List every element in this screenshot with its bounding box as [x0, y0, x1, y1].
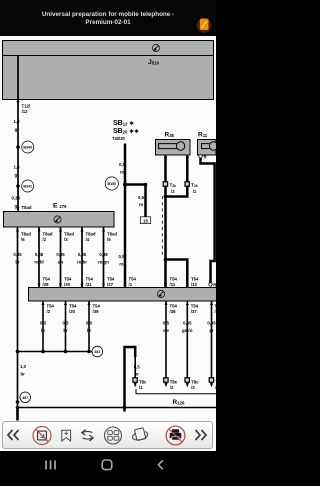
- forward chevrons: [196, 430, 207, 440]
- pin label T12l/12: [22, 104, 31, 114]
- svg-text:ge/ro: ge/ro: [182, 328, 193, 333]
- arrow into E279 pin T8ad/3: [59, 228, 62, 232]
- svg-text:0,5: 0,5: [119, 254, 126, 259]
- arrow into E279 pin T8ad/5: [102, 228, 105, 232]
- svg-text:0,5: 0,5: [119, 162, 126, 167]
- wire E279 T8ad/3 (0,35 sw): [60, 227, 62, 288]
- svg-text:J519: J519: [148, 59, 159, 66]
- value label 1,0 gr: [14, 165, 21, 178]
- earth wire from radio T54/39 (0,5 br): [88, 301, 90, 352]
- bottom earth rail: [18, 407, 217, 409]
- pin T12l/12 arrow: [17, 101, 20, 105]
- svg-text:/37: /37: [191, 309, 198, 314]
- pin label T54/39: [93, 304, 101, 314]
- arrow into telephone unit T8c/2: [165, 383, 168, 387]
- in-line connector T8c/3: [185, 378, 189, 382]
- pin label T54/27: [107, 277, 115, 287]
- wire continuation to connector T8c/1: [134, 356, 136, 382]
- svg-text:T54: T54: [43, 277, 51, 282]
- svg-text:br: br: [41, 328, 46, 333]
- in-line connector T8c/2: [164, 378, 168, 382]
- svg-text:/2: /2: [171, 189, 175, 194]
- svg-text:0,35: 0,35: [207, 321, 216, 326]
- R38 pin dot (left): [164, 156, 167, 159]
- pin label T8ad/3: [64, 232, 74, 242]
- arrow from radio pin T54/40: [210, 301, 213, 305]
- wire T40/30 to radio T54/1 (0,5 ro): [124, 144, 127, 288]
- junction dot on bottom rail: [123, 406, 127, 410]
- svg-text:br: br: [21, 372, 26, 377]
- page curl icon: [132, 428, 147, 441]
- earth stub below rail: [16, 408, 19, 421]
- value label 0,35 sw: [56, 252, 65, 265]
- aerial symbol in R38: [159, 142, 185, 150]
- svg-text:T2k: T2k: [170, 183, 177, 189]
- junction dot at earth point: [16, 400, 20, 404]
- arrow into radio pin T54/11: [164, 284, 167, 288]
- earth point 387: [20, 392, 31, 403]
- in-line connector T8c/7: [209, 378, 213, 382]
- svg-text:/12: /12: [22, 109, 29, 114]
- junction dot on earth rail: [87, 350, 91, 354]
- connector label T2k/1: [191, 183, 198, 195]
- svg-text:T8ad: T8ad: [21, 232, 31, 237]
- svg-text:R: R: [213, 283, 216, 288]
- radio unit R box: [29, 288, 217, 302]
- svg-text:T54: T54: [69, 304, 77, 309]
- svg-text:T54: T54: [170, 304, 178, 309]
- svg-text:0,35: 0,35: [13, 252, 22, 257]
- continuation-arrow symbol in E279: [54, 216, 61, 223]
- earth connection 383: [92, 346, 103, 357]
- value label 1,0 br: [20, 364, 27, 377]
- swap arrows icon: [82, 430, 94, 441]
- pin label T54/28: [43, 277, 51, 287]
- svg-text:SB12 ∗: SB12 ∗: [113, 120, 134, 127]
- svg-text:/7: /7: [215, 385, 216, 390]
- earth wire for telephone unit T8c/1 (0,5 br): [125, 347, 136, 408]
- svg-text:/5: /5: [107, 237, 111, 242]
- svg-text:15: 15: [143, 218, 148, 223]
- positive connection B341: [22, 180, 34, 192]
- value label 0,5 br: [63, 321, 70, 334]
- svg-text:B150: B150: [108, 182, 117, 186]
- android navigation bar: [0, 451, 216, 480]
- value label 0,38 ro/gn: [98, 252, 109, 265]
- in-line connector T2k/2: [163, 182, 167, 186]
- junction dot on earth rail: [41, 350, 45, 354]
- pin label T8ad/5: [107, 232, 117, 242]
- wire E279 T8ad/4 (0,35 ro/br): [81, 227, 83, 288]
- arrow into telephone unit T8c/1: [134, 383, 137, 387]
- svg-text:/12: /12: [191, 282, 198, 287]
- svg-text:/4: /4: [86, 237, 90, 242]
- svg-text:T54: T54: [191, 277, 199, 282]
- svg-text:B341: B341: [23, 185, 32, 189]
- svg-text:sw: sw: [58, 260, 64, 265]
- svg-text:/31: /31: [86, 282, 93, 287]
- arrow into radio pin T54/27: [102, 284, 105, 288]
- svg-text:SB20 ∗∗: SB20 ∗∗: [113, 128, 139, 135]
- svg-text:T8c: T8c: [170, 380, 178, 385]
- svg-text:/6: /6: [21, 237, 25, 242]
- arrow from radio pin T54/37: [186, 301, 189, 305]
- svg-text:T8c: T8c: [139, 380, 147, 385]
- svg-text:/39: /39: [93, 309, 100, 314]
- pin label T8ad/1: [22, 205, 32, 215]
- arrow from radio pin T54/38: [165, 301, 168, 305]
- switch unit E279 box: [4, 212, 115, 228]
- pin label T54/11: [170, 277, 178, 287]
- svg-text:T8ad: T8ad: [64, 232, 74, 237]
- svg-text:T12l: T12l: [22, 104, 31, 109]
- junction dot on earth rail: [64, 350, 68, 354]
- positive connection B340: [22, 141, 34, 153]
- earth wire down (1,0 br): [17, 352, 19, 408]
- svg-text:T54: T54: [129, 277, 137, 282]
- connector label T8c/3: [191, 380, 199, 390]
- svg-text:E 279: E 279: [53, 202, 67, 209]
- arrow from radio pin T54/20: [64, 301, 67, 305]
- svg-text:0,38: 0,38: [35, 252, 44, 257]
- svg-text:/40: /40: [215, 309, 217, 314]
- svg-text:R38: R38: [165, 132, 175, 139]
- svg-text:0,5: 0,5: [40, 321, 47, 326]
- svg-text:gr: gr: [15, 127, 20, 132]
- svg-text:T54: T54: [191, 304, 199, 309]
- svg-text:ro/br: ro/br: [77, 260, 87, 265]
- wire radio T54/38 to telephone unit (0,5 sw): [165, 301, 167, 382]
- aerial coax wire R11 to radio pin R: [201, 158, 215, 283]
- svg-text:0,35: 0,35: [183, 321, 192, 326]
- svg-text:1,0: 1,0: [14, 165, 21, 170]
- bookmark add icon: [62, 430, 71, 441]
- wire E279 T8ad/2 (0,38 ro/bl): [38, 227, 40, 288]
- svg-text:/3: /3: [64, 237, 68, 242]
- svg-text:T40/30: T40/30: [112, 136, 125, 141]
- value label 0,5 br: [86, 321, 93, 334]
- no-image icon: [33, 427, 51, 445]
- telephone interface unit R126 bracket: [136, 389, 216, 394]
- arrow into radio pin T54/12: [186, 284, 189, 288]
- junction dot at B340: [16, 145, 20, 149]
- connector label T8c/7: [215, 380, 223, 390]
- R11 aerial pin R: [199, 155, 202, 158]
- svg-text:T54: T54: [215, 304, 217, 309]
- svg-text:/2: /2: [170, 385, 174, 390]
- svg-text:T8c: T8c: [215, 380, 216, 385]
- junction dot: [164, 195, 168, 199]
- junction dot of screen branch: [164, 258, 168, 262]
- value label 0,5 br: [134, 365, 141, 377]
- arrow into radio pin T54/1: [123, 284, 126, 288]
- pin label T54/38: [170, 304, 178, 314]
- aerial amplifier R38 box: [156, 140, 191, 156]
- svg-text:/1: /1: [139, 385, 143, 390]
- wire branch to terminal 15 (0,5 ro): [125, 185, 146, 217]
- svg-text:/28: /28: [43, 282, 50, 287]
- svg-text:ro: ro: [119, 262, 124, 267]
- pin label T8ad/2: [43, 232, 53, 242]
- svg-text:1,0: 1,0: [14, 119, 21, 124]
- svg-text:T8ad: T8ad: [43, 232, 53, 237]
- svg-text:0,38: 0,38: [99, 252, 108, 257]
- svg-text:br: br: [63, 328, 68, 333]
- arrow into E279 pin T8ad/2: [38, 228, 41, 232]
- pin label T54/12: [191, 277, 199, 287]
- svg-text:0,5: 0,5: [86, 321, 93, 326]
- svg-text:ro/bl: ro/bl: [34, 260, 43, 265]
- arrow into telephone unit T8c/3: [186, 383, 189, 387]
- window grid icon: [105, 427, 122, 444]
- aerial R11 box: [198, 140, 217, 156]
- junction dot: [144, 183, 148, 187]
- svg-text:/30: /30: [64, 282, 71, 287]
- continuation-arrow symbol in radio box: [157, 290, 164, 297]
- in-line connector T2k/1: [185, 182, 189, 186]
- connector label T8c/2: [170, 380, 178, 390]
- positive connection B150: [105, 177, 118, 190]
- svg-text:0,5: 0,5: [63, 321, 70, 326]
- arrow into telephone unit T8c/7: [210, 383, 213, 387]
- stub below rail: [123, 408, 126, 412]
- screened wire R38 to radio T54/11: [164, 157, 167, 288]
- svg-text:0,35: 0,35: [56, 252, 65, 257]
- svg-text:br: br: [135, 372, 140, 377]
- svg-text:T54: T54: [170, 277, 178, 282]
- svg-text:/27: /27: [107, 282, 114, 287]
- R38 pin dot (right): [186, 156, 189, 159]
- svg-text:ro: ro: [139, 202, 144, 207]
- pin label T54/40: [215, 304, 223, 314]
- svg-text:T8ad: T8ad: [22, 205, 32, 210]
- svg-text:T54: T54: [107, 277, 115, 282]
- pin T8ad/1 arrow into E279: [17, 207, 20, 211]
- svg-text:0,5: 0,5: [163, 321, 170, 326]
- svg-text:gr: gr: [209, 328, 214, 333]
- pin label T54/2: [47, 304, 55, 314]
- wire E279 T8ad/6 (0,35 br): [17, 227, 19, 352]
- pin label T54/30: [64, 277, 72, 287]
- svg-text:/38: /38: [170, 309, 177, 314]
- arrow into radio pin T54/30: [59, 284, 62, 288]
- svg-text:/1: /1: [193, 189, 197, 194]
- pin label T8ad/6: [21, 232, 31, 242]
- value label 1,0 gr: [14, 119, 21, 132]
- wire radio T54/37 to telephone unit (0,35 ge/ro): [186, 301, 188, 382]
- toolbar: [2, 421, 213, 449]
- terminal 15 designation box: [140, 217, 150, 224]
- earth wire from radio T54/2 (0,5 br): [42, 301, 44, 352]
- svg-text:sw: sw: [163, 328, 169, 333]
- svg-text:br: br: [15, 260, 20, 265]
- junction dot at B150: [123, 183, 127, 187]
- arrow into E279 pin T8ad/6: [16, 228, 19, 232]
- back chevrons: [8, 430, 19, 440]
- screen branch wire to radio T54/12: [166, 260, 188, 288]
- pin label T54/1: [129, 277, 137, 287]
- wire J519 to E279 (1,0 gr): [17, 56, 19, 212]
- arrow into radio pin T54/28: [38, 284, 41, 288]
- svg-text:T2k: T2k: [191, 183, 198, 189]
- screening dashed line: [161, 196, 163, 258]
- svg-text:1,0: 1,0: [20, 364, 27, 369]
- no-print icon: [166, 426, 185, 445]
- value label 0,5 br: [40, 321, 47, 334]
- pin label T8ad/4: [86, 232, 96, 242]
- arrow into E279 pin T8ad/4: [81, 228, 84, 232]
- svg-text:gr: gr: [15, 173, 20, 178]
- pin label T54/37: [191, 304, 199, 314]
- pin label T54/20: [69, 304, 77, 314]
- connector label T8c/1: [139, 380, 147, 390]
- svg-text:383: 383: [94, 350, 100, 354]
- value label 0,35 gr: [207, 321, 216, 334]
- svg-text:T54: T54: [93, 304, 101, 309]
- svg-text:T8ad: T8ad: [86, 232, 96, 237]
- svg-text:ro/gn: ro/gn: [98, 260, 109, 265]
- connector label T2k/2: [170, 183, 177, 195]
- value label 0,5 ro: [138, 195, 145, 207]
- wire E279 T8ad/5 (0,38 ro/gn): [103, 227, 105, 288]
- title bar: [0, 0, 216, 36]
- svg-text:R126: R126: [173, 399, 186, 406]
- svg-text:T54: T54: [64, 277, 72, 282]
- junction dot: [16, 350, 20, 354]
- svg-text:387: 387: [22, 396, 28, 400]
- svg-text:/1: /1: [129, 282, 133, 287]
- svg-text:T54: T54: [47, 304, 55, 309]
- in-line connector T8c/1: [133, 378, 137, 382]
- earth collector wire: [18, 351, 92, 353]
- value label 0,38 gr: [12, 196, 21, 209]
- svg-text:/2: /2: [43, 237, 47, 242]
- svg-text:T8ad: T8ad: [107, 232, 117, 237]
- svg-text:0,5: 0,5: [134, 365, 141, 370]
- radio aerial pin R: [209, 283, 212, 286]
- svg-text:ro: ro: [120, 170, 125, 175]
- junction dot on bottom rail: [16, 406, 20, 410]
- svg-text:B340: B340: [23, 146, 32, 150]
- svg-text:T8c: T8c: [191, 380, 199, 385]
- value label 0,5 sw: [163, 321, 170, 334]
- svg-text:/2: /2: [47, 309, 51, 314]
- svg-text:0,35: 0,35: [78, 252, 87, 257]
- svg-text:/3: /3: [191, 385, 195, 390]
- control unit J519 box: [3, 41, 214, 100]
- arrow from radio pin T54/39: [88, 301, 91, 305]
- arrow from radio pin T54/2: [42, 301, 45, 305]
- value label 0,5 ro: [119, 254, 126, 267]
- value label 0,35 br: [13, 252, 22, 265]
- aerial symbol in R11: [202, 142, 218, 150]
- earth wire from radio T54/20 (0,5 br): [65, 301, 67, 352]
- wire radio T54/40 to telephone unit (0,35 gr): [211, 301, 213, 382]
- junction dot at B341: [16, 184, 20, 188]
- value label 0,35 ro/br: [77, 252, 87, 265]
- svg-text:0,38: 0,38: [12, 196, 21, 201]
- svg-text:/11: /11: [170, 282, 176, 287]
- continuation-arrow symbol in J519: [152, 44, 159, 51]
- value label 0,35 ge/ro: [182, 321, 193, 334]
- svg-text:T54: T54: [86, 277, 94, 282]
- svg-text:R11: R11: [198, 132, 208, 139]
- value label 0,38 ro/bl: [34, 252, 43, 265]
- svg-text:0,5: 0,5: [138, 195, 145, 200]
- svg-text:br: br: [87, 328, 92, 333]
- wire R38 right pin joining left wire: [166, 157, 188, 197]
- svg-text:/20: /20: [69, 309, 76, 314]
- arrow into radio pin T54/31: [81, 284, 84, 288]
- pin label T54/31: [86, 277, 94, 287]
- value label 0,5 ro: [119, 162, 126, 175]
